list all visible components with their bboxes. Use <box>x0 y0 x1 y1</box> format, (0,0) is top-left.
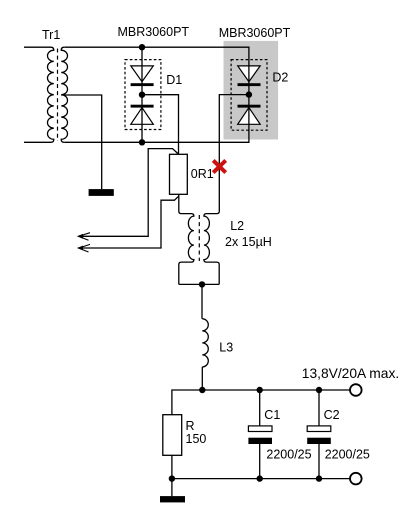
svg-text:C1: C1 <box>264 408 280 422</box>
svg-text:MBR3060PT: MBR3060PT <box>219 26 291 40</box>
svg-text:C2: C2 <box>324 408 340 422</box>
svg-text:D1: D1 <box>166 73 182 87</box>
svg-text:2200/25: 2200/25 <box>325 447 370 461</box>
svg-text:L2: L2 <box>230 219 244 233</box>
svg-text:D2: D2 <box>272 71 288 85</box>
svg-text:L3: L3 <box>219 340 233 354</box>
svg-text:2200/25: 2200/25 <box>266 447 311 461</box>
svg-text:R: R <box>186 419 195 433</box>
svg-text:MBR3060PT: MBR3060PT <box>118 25 190 39</box>
svg-text:150: 150 <box>186 432 207 446</box>
svg-text:Tr1: Tr1 <box>42 28 60 42</box>
svg-text:13,8V/20A max.: 13,8V/20A max. <box>302 366 399 381</box>
svg-text:2x 15µH: 2x 15µH <box>225 235 272 249</box>
svg-text:0R1: 0R1 <box>191 167 214 181</box>
